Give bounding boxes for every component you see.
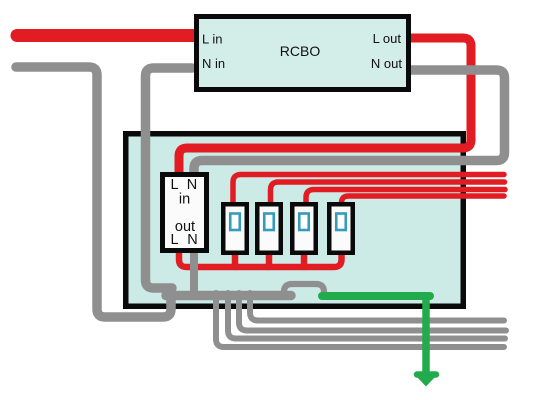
svg-text:L: L — [170, 177, 178, 193]
svg-text:L: L — [170, 232, 178, 248]
svg-text:N: N — [187, 232, 197, 248]
svg-text:N in: N in — [202, 56, 225, 71]
svg-text:L out: L out — [373, 31, 402, 46]
svg-text:RCBO: RCBO — [280, 43, 321, 59]
svg-text:in: in — [179, 192, 190, 208]
svg-text:L in: L in — [202, 32, 222, 47]
svg-text:N out: N out — [371, 56, 402, 71]
